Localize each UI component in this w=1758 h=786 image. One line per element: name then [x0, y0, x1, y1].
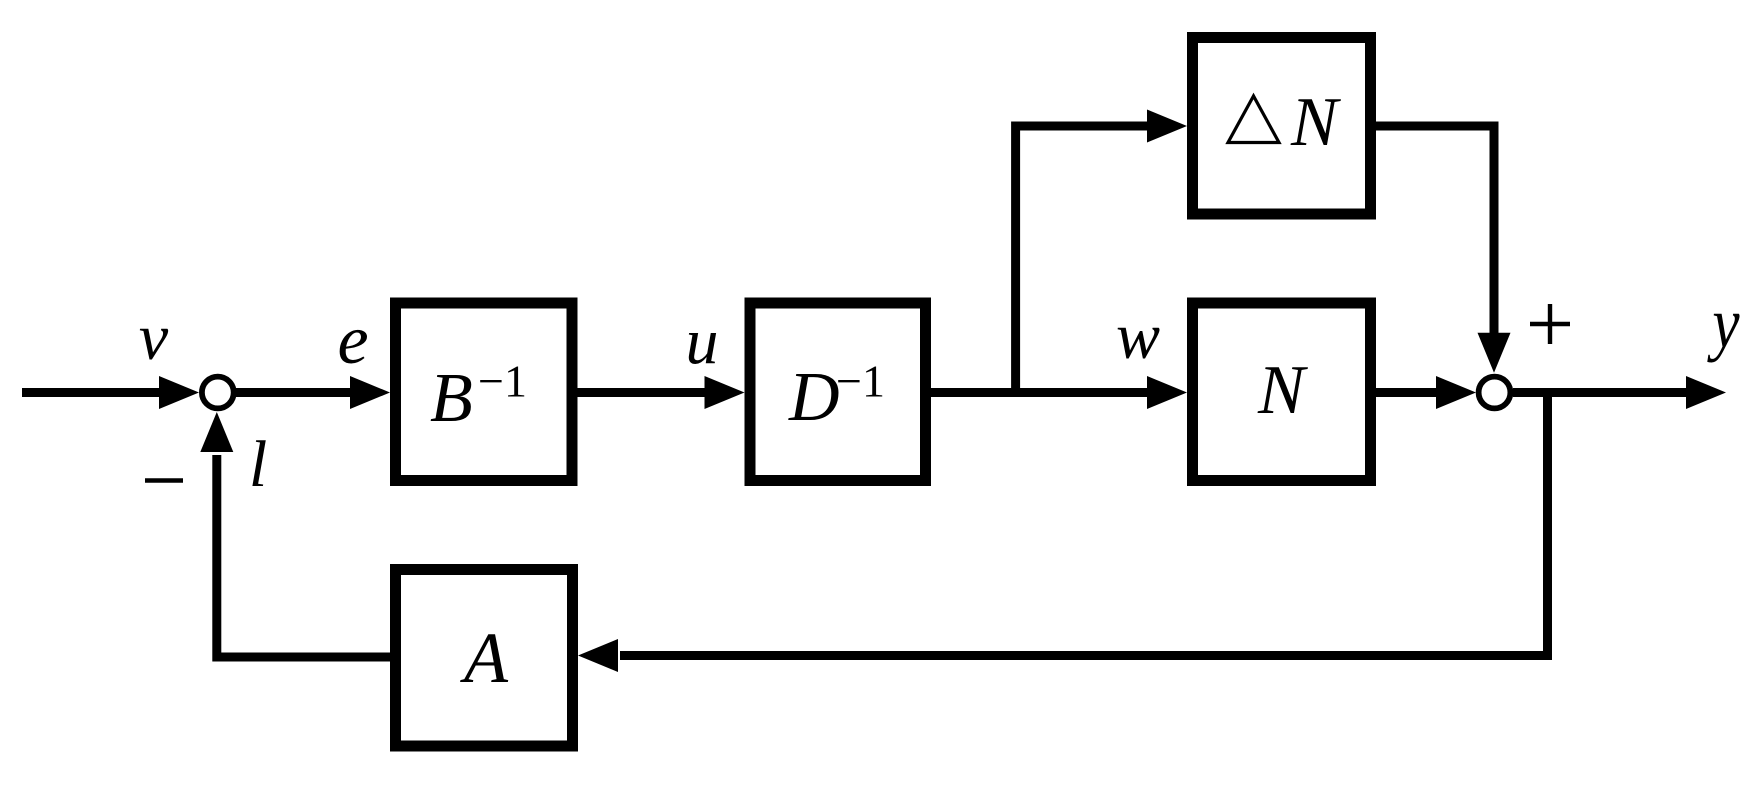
- svg-text:−1: −1: [836, 356, 885, 407]
- arrowhead into block D: [705, 376, 745, 409]
- summing junction S2: [1479, 377, 1511, 409]
- node label y: [1707, 283, 1740, 363]
- svg-text:v: v: [139, 301, 169, 374]
- svg-text:N: N: [1290, 84, 1341, 161]
- arrowhead into block Delta-N: [1147, 110, 1187, 143]
- arrowhead up into summing junction 1: [200, 412, 233, 452]
- block A: [396, 570, 573, 747]
- wire branch up to Delta-N: [1016, 126, 1150, 397]
- value label D^-1: [788, 356, 885, 437]
- wire A to S1: [217, 455, 390, 657]
- wire output y: [1513, 388, 1690, 397]
- sign label minus: [145, 478, 183, 482]
- block N: [1193, 303, 1371, 481]
- block D^-1: [750, 303, 926, 481]
- summing junction S1: [202, 377, 234, 409]
- arrowhead into block N: [1147, 376, 1187, 409]
- wire B to D: [578, 388, 711, 397]
- block Delta-N: [1193, 38, 1371, 215]
- block B^-1: [396, 303, 573, 481]
- arrowhead down into summing junction 2: [1478, 333, 1511, 373]
- wire input v: [22, 388, 165, 397]
- sign label plus: [1530, 304, 1570, 344]
- svg-text:y: y: [1707, 283, 1740, 363]
- wire feedback tap down and left to A: [620, 390, 1548, 656]
- svg-text:u: u: [686, 305, 719, 378]
- wire S1 to B: [234, 388, 355, 397]
- svg-text:A: A: [460, 618, 509, 698]
- arrowhead output: [1686, 376, 1726, 409]
- arrowhead into block A: [578, 639, 618, 672]
- arrowhead into summing junction 2 from left: [1436, 376, 1476, 409]
- svg-text:w: w: [1116, 300, 1160, 373]
- svg-text:e: e: [337, 302, 368, 379]
- wire D to N with branch junction: [931, 388, 1150, 397]
- value label Delta-N: [1228, 84, 1341, 161]
- svg-text:l: l: [249, 428, 267, 501]
- wire N to summing junction 2: [1376, 388, 1440, 397]
- arrowhead into summing junction 1: [159, 376, 199, 409]
- wire Delta-N to summing junction 2: [1376, 126, 1494, 335]
- value label A: [460, 618, 509, 698]
- svg-text:−1: −1: [478, 356, 527, 407]
- svg-text:D: D: [788, 359, 840, 436]
- value label N: [1257, 352, 1308, 429]
- svg-text:N: N: [1257, 352, 1308, 429]
- svg-text:B: B: [430, 360, 473, 437]
- arrowhead into block B: [350, 376, 390, 409]
- value label B^-1: [430, 356, 527, 438]
